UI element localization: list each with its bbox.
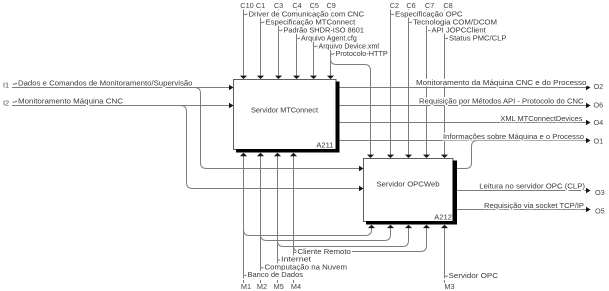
svg-text:M2: M2: [257, 282, 267, 291]
svg-text:O3: O3: [595, 188, 605, 197]
control C1 line: [257, 10, 264, 80]
svg-text:Leitura no servidor OPC (CLP): Leitura no servidor OPC (CLP): [479, 182, 585, 191]
svg-text:O1: O1: [594, 137, 604, 146]
wire M4 branch to A212 bottom: [294, 225, 431, 252]
wire M2 branch to A212 bottom: [261, 225, 395, 241]
svg-text:Banco de Dados: Banco de Dados: [248, 270, 304, 279]
svg-text:M5: M5: [274, 282, 284, 291]
control C4 line: [293, 10, 300, 80]
svg-text:O2: O2: [594, 82, 604, 91]
mechanism M2 wire: [257, 153, 264, 283]
label Padrão SHDR-ISO 8601: [279, 25, 365, 34]
label Especificação MTConnect: [261, 17, 356, 26]
mechanism M5 wire: [274, 153, 281, 283]
svg-text:O5: O5: [595, 207, 605, 216]
control C6 line: [405, 10, 412, 159]
svg-text:Status PMC/CLP: Status PMC/CLP: [449, 33, 506, 42]
output O1 wire: [340, 138, 591, 144]
output O2 wire: [340, 85, 591, 91]
svg-text:XML MTConnectDevices: XML MTConnectDevices: [500, 114, 582, 123]
control C8 line: [441, 10, 448, 159]
mechanism M4 wire: [290, 153, 297, 283]
wire A212 output merge into O1: [457, 141, 478, 169]
control C2 line: [387, 10, 394, 159]
svg-text:M3: M3: [444, 282, 454, 291]
label Arquivo Agent.cfg: [297, 33, 358, 42]
mechanism M1 wire: [240, 153, 247, 283]
label Servidor OPC: [445, 271, 498, 280]
svg-text:O4: O4: [594, 118, 604, 127]
label Banco de Dados: [244, 270, 304, 279]
output O5 wire: [457, 207, 591, 213]
control C7 line: [423, 10, 430, 159]
control C9 line: [327, 10, 334, 80]
wire C9 branch to A212 top: [331, 59, 375, 159]
svg-text:M1: M1: [241, 282, 251, 291]
control C5 line: [310, 10, 317, 80]
svg-text:Servidor OPCWeb: Servidor OPCWeb: [377, 180, 440, 189]
svg-text:Servidor MTConnect: Servidor MTConnect: [251, 106, 319, 115]
wire M1 branch to A212 bottom: [244, 225, 376, 236]
svg-text:Monitoramento Máquina CNC: Monitoramento Máquina CNC: [18, 97, 124, 106]
output O4 wire: [340, 120, 591, 126]
label API JOPCClient: [428, 25, 487, 34]
label Computação na Nuvem: [261, 262, 348, 271]
block A211 Servidor MTConnect: [234, 80, 340, 153]
svg-text:A212: A212: [434, 213, 452, 222]
label Monitoramento da Máquina CNC e do Processo: [415, 79, 588, 87]
svg-text:Requisição via socket TCP/IP: Requisição via socket TCP/IP: [484, 201, 584, 210]
svg-text:I1: I1: [3, 81, 9, 90]
label Requisição por Métodos API - Protocolo do CNC: [418, 97, 585, 105]
label Status PMC/CLP: [445, 33, 507, 42]
output O6 wire: [340, 103, 591, 109]
svg-text:Dados e Comandos de Monitorame: Dados e Comandos de Monitoramento/Superv…: [18, 79, 192, 88]
label Dados e Comandos de Monitoramento/Supervisão: [13, 79, 193, 88]
label Driver de Comunicação com CNC: [244, 9, 365, 18]
mechanism M3 wire: [441, 225, 448, 283]
input I2 wire: [12, 103, 234, 109]
svg-text:Protocolo-HTTP: Protocolo-HTTP: [336, 49, 388, 58]
wire M5 branch to A212 bottom: [278, 225, 413, 247]
label Informações sobre Máquina e o Processo: [442, 133, 585, 141]
svg-text:M4: M4: [291, 282, 301, 291]
block A212 Servidor OPCWeb: [364, 159, 458, 225]
input I1 wire: [12, 85, 234, 91]
svg-text:Monitoramento da Máquina CNC e: Monitoramento da Máquina CNC e do Proces…: [416, 78, 587, 87]
svg-text:Servidor OPC: Servidor OPC: [449, 271, 499, 280]
label Monitoramento Máquina CNC: [13, 97, 124, 106]
svg-text:A211: A211: [316, 141, 333, 150]
output O3 wire: [457, 188, 591, 194]
wire I2 branch to A212 left: [181, 106, 364, 192]
label Protocolo-HTTP: [331, 49, 389, 58]
svg-text:O6: O6: [594, 101, 604, 110]
svg-text:I2: I2: [3, 99, 9, 108]
label Cliente Remoto: [294, 247, 352, 256]
svg-text:Informações sobre Máquina e o: Informações sobre Máquina e o Processo: [443, 132, 584, 141]
svg-text:Requisição por Métodos API - P: Requisição por Métodos API - Protocolo d…: [419, 97, 584, 106]
label Tecnologia COM/DCOM: [409, 17, 498, 26]
wire I1 branch to A212 left: [195, 88, 364, 172]
control C3 line: [275, 10, 282, 80]
label Arquivo Device.xml: [314, 41, 380, 50]
label Internet: [278, 255, 312, 264]
label Especificação OPC: [391, 9, 463, 18]
control C10 line: [240, 10, 247, 80]
